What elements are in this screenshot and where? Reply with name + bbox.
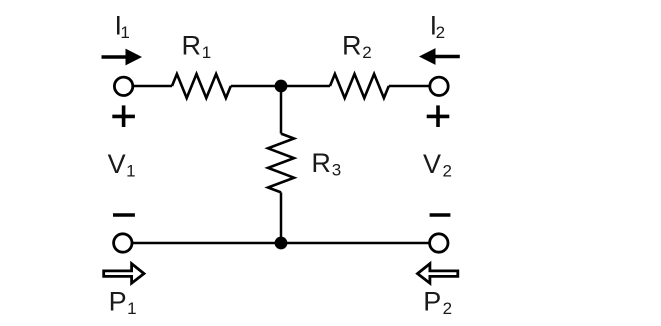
wire R2 to right terminal <box>389 85 430 88</box>
minus sign port 2 <box>430 213 451 216</box>
plus sign port 2 <box>427 105 450 127</box>
svg-text:R: R <box>311 148 331 178</box>
resistor R1 <box>172 74 231 98</box>
svg-text:V: V <box>423 149 441 179</box>
svg-text:2: 2 <box>443 299 452 318</box>
svg-text:2: 2 <box>436 23 445 42</box>
power arrow P2 (hollow) <box>418 264 458 284</box>
label V1 <box>108 149 136 181</box>
svg-text:P: P <box>423 286 441 316</box>
label V2 <box>423 149 452 181</box>
wire node A down to R3 <box>280 86 283 134</box>
terminal port 2 bottom <box>430 234 448 252</box>
current arrow I2 <box>419 48 460 65</box>
label R3 <box>311 148 341 180</box>
resistor R2 <box>330 74 389 98</box>
svg-text:1: 1 <box>127 299 136 318</box>
node A junction dot <box>275 80 288 93</box>
wire top-left segment <box>133 85 173 88</box>
svg-text:2: 2 <box>362 43 371 62</box>
svg-text:1: 1 <box>126 162 135 181</box>
svg-text:R: R <box>182 30 202 60</box>
minus sign port 1 <box>113 213 135 216</box>
label P1 <box>109 286 137 318</box>
svg-text:1: 1 <box>120 23 129 42</box>
label I1 <box>115 11 130 43</box>
current arrow I1 <box>102 49 143 66</box>
label P2 <box>423 286 452 318</box>
svg-text:1: 1 <box>202 43 211 62</box>
node B junction dot <box>275 237 288 250</box>
terminal port 2 top <box>430 77 448 95</box>
wire bottom rail <box>132 242 429 245</box>
label R1 <box>182 30 212 62</box>
resistor R3 <box>268 134 294 193</box>
plus sign port 1 <box>112 105 135 127</box>
wire R1 to node A <box>231 85 330 88</box>
terminal port 1 bottom <box>114 234 132 252</box>
terminal port 1 top <box>114 77 132 95</box>
power arrow P1 (hollow) <box>104 264 144 284</box>
label R2 <box>342 30 372 62</box>
svg-text:R: R <box>342 30 362 60</box>
label I2 <box>430 11 445 43</box>
svg-text:3: 3 <box>332 161 341 180</box>
svg-text:2: 2 <box>443 162 452 181</box>
svg-text:V: V <box>108 149 126 179</box>
svg-text:P: P <box>109 286 127 316</box>
wire R3 to node B <box>280 192 283 243</box>
